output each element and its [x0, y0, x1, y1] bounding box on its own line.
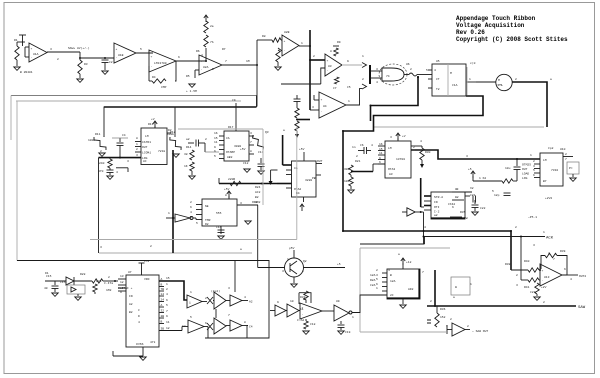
svg-text:LM: LM	[388, 147, 392, 150]
svg-text:(4x2): (4x2)	[211, 289, 220, 293]
svg-text:2: 2	[515, 78, 517, 81]
svg-text:1 K2: 1 K2	[479, 177, 486, 180]
svg-text:220R: 220R	[228, 178, 235, 181]
svg-text:3: 3	[136, 154, 138, 157]
svg-text:470: 470	[98, 170, 104, 173]
svg-text:OUT: OUT	[317, 160, 323, 163]
svg-text:a2: a2	[434, 214, 438, 217]
svg-text:7: 7	[553, 258, 555, 261]
svg-text:4: 4	[190, 211, 192, 214]
svg-text:7218: 7218	[158, 150, 165, 153]
svg-text:Voltage Acquisition: Voltage Acquisition	[456, 22, 525, 29]
svg-text:4: 4	[166, 293, 168, 296]
svg-text:TMR: TMR	[205, 219, 211, 222]
svg-text:+: +	[542, 269, 544, 272]
svg-text:3: 3	[376, 274, 378, 277]
svg-text:11: 11	[379, 152, 383, 155]
svg-text:+ 1.5M: + 1.5M	[186, 90, 197, 93]
svg-text:+5V: +5V	[144, 260, 150, 263]
svg-text:C4: C4	[249, 326, 253, 329]
svg-text:2: 2	[166, 288, 168, 291]
svg-text:4: 4	[138, 321, 140, 324]
svg-text:+2V: +2V	[541, 286, 547, 289]
svg-text:Q2: Q2	[303, 260, 307, 263]
svg-text:B2: B2	[129, 311, 133, 314]
svg-text:AD2: AD2	[408, 288, 414, 291]
svg-text:3: 3	[516, 284, 518, 287]
svg-text:LM: LM	[145, 135, 149, 138]
svg-text:5: 5	[376, 278, 378, 281]
svg-text:U5: U5	[436, 60, 440, 63]
svg-text:A2: A2	[249, 301, 253, 304]
svg-text:38: 38	[184, 153, 188, 156]
svg-text:C2: C2	[182, 325, 186, 328]
svg-text:6: 6	[533, 174, 535, 177]
svg-text:R11: R11	[95, 133, 101, 136]
svg-text:+: +	[201, 60, 203, 63]
svg-text:2: 2	[108, 276, 110, 279]
svg-text:LOAD: LOAD	[522, 172, 529, 175]
svg-text:C15: C15	[60, 281, 66, 284]
svg-text:13: 13	[120, 275, 124, 278]
svg-text:2C: 2C	[390, 294, 394, 297]
svg-text:1M2: 1M2	[106, 289, 112, 292]
svg-text:2: 2	[430, 300, 432, 303]
svg-text:R4: R4	[152, 76, 156, 79]
svg-text:C9: C9	[232, 99, 236, 102]
svg-text:1: 1	[469, 78, 471, 81]
svg-text:4: 4	[116, 171, 118, 174]
svg-text:R29: R29	[96, 280, 102, 283]
svg-text:+5V: +5V	[240, 148, 246, 151]
svg-text:2: 2	[205, 138, 207, 141]
svg-text:1: 1	[352, 316, 354, 319]
svg-text:10: 10	[120, 287, 124, 290]
svg-text:47k: 47k	[150, 340, 156, 344]
svg-text:IN: IN	[129, 295, 133, 298]
svg-text:-: -	[116, 57, 118, 60]
svg-text:~ SAW OUT: ~ SAW OUT	[472, 330, 488, 333]
svg-text:U1A: U1A	[33, 53, 39, 56]
svg-text:B2: B2	[255, 196, 259, 199]
svg-text:SAW+ AV(+/-): SAW+ AV(+/-)	[68, 46, 90, 50]
svg-text:R36: R36	[440, 308, 446, 311]
svg-text:100: 100	[344, 180, 350, 183]
svg-text:C-A2: C-A2	[297, 319, 304, 322]
svg-text:OTM25: OTM25	[522, 163, 531, 166]
svg-text:2: 2	[362, 78, 364, 81]
svg-text:13700: 13700	[396, 158, 405, 161]
svg-text:M: M	[498, 79, 500, 82]
svg-text:OTI: OTI	[434, 206, 440, 209]
svg-text:R2A: R2A	[370, 279, 376, 282]
svg-text:AB2: AB2	[227, 156, 233, 159]
svg-text:U9: U9	[336, 300, 340, 303]
svg-text:1: 1	[348, 100, 350, 103]
svg-text:a: a	[453, 296, 455, 299]
svg-text:11: 11	[166, 321, 170, 324]
svg-text:3: 3	[390, 136, 392, 139]
svg-text:C12: C12	[243, 162, 249, 165]
svg-text:4: 4	[376, 81, 378, 84]
svg-text:C21: C21	[470, 194, 476, 197]
svg-text:9: 9	[347, 60, 349, 63]
svg-text:C19: C19	[345, 331, 351, 334]
svg-text:5: 5	[533, 169, 535, 172]
svg-text:-: -	[542, 279, 544, 282]
svg-text:2: 2	[467, 325, 469, 328]
svg-text:LOG: LOG	[522, 177, 528, 180]
svg-text:4: 4	[424, 226, 426, 229]
svg-text:1: 1	[470, 283, 472, 286]
svg-text:1: 1	[301, 42, 303, 45]
svg-text:STR-A: STR-A	[434, 196, 443, 199]
svg-text:+: +	[327, 59, 329, 62]
svg-text:2: 2	[410, 68, 412, 71]
svg-text:U1B: U1B	[118, 54, 124, 57]
svg-text:-: -	[151, 65, 153, 68]
svg-text:3: 3	[100, 246, 102, 249]
svg-text:3: 3	[466, 155, 468, 158]
svg-text:D1: D1	[45, 272, 49, 275]
svg-text:9: 9	[120, 291, 122, 294]
svg-text:W: W	[455, 286, 457, 289]
svg-text:R9: R9	[337, 41, 341, 44]
svg-text:B 2N401: B 2N401	[20, 71, 33, 74]
svg-text:+12: +12	[406, 261, 412, 264]
svg-text:4: 4	[388, 269, 390, 272]
svg-text:-: -	[201, 69, 203, 72]
svg-text:1: 1	[190, 291, 192, 294]
svg-text:~P5.1: ~P5.1	[528, 216, 537, 219]
svg-text:-: -	[327, 69, 329, 72]
svg-text:1: 1	[362, 55, 364, 58]
svg-text:4: 4	[420, 140, 422, 143]
svg-text:+5V: +5V	[299, 148, 305, 151]
svg-text:R40: R40	[524, 260, 530, 263]
svg-text:U2B: U2B	[284, 31, 290, 34]
svg-text:2: 2	[515, 226, 517, 229]
svg-text:-: -	[31, 56, 33, 59]
svg-text:C7: C7	[333, 87, 337, 90]
svg-text:8: 8	[225, 194, 227, 197]
svg-text:R28: R28	[80, 273, 86, 276]
svg-text:12A: 12A	[390, 280, 396, 283]
svg-text:2: 2	[533, 160, 535, 163]
svg-text:-: -	[321, 110, 323, 113]
svg-text:C14: C14	[216, 226, 222, 229]
svg-text:2: 2	[136, 148, 138, 151]
svg-text:-: -	[284, 49, 286, 52]
svg-text:M: M	[450, 72, 452, 75]
svg-text:Rev 0.26: Rev 0.26	[456, 29, 485, 36]
svg-text:C15: C15	[46, 275, 52, 278]
svg-text:3: 3	[533, 165, 535, 168]
svg-text:3: 3	[446, 325, 448, 328]
svg-text:Appendage Touch Ribbon: Appendage Touch Ribbon	[456, 15, 536, 22]
svg-text:8: 8	[456, 188, 458, 191]
svg-text:D: D	[138, 315, 140, 318]
svg-text:OP2: OP2	[252, 201, 258, 204]
svg-text:R6: R6	[196, 50, 200, 53]
svg-text:+: +	[321, 98, 323, 101]
svg-text:2: 2	[57, 58, 59, 61]
svg-text:CT: CT	[436, 78, 440, 81]
svg-text:15: 15	[379, 148, 383, 151]
svg-text:1: 1	[168, 212, 170, 215]
svg-text:C: C	[138, 309, 140, 312]
svg-text:4: 4	[244, 296, 246, 299]
svg-text:6: 6	[166, 299, 168, 302]
svg-text:R35: R35	[460, 211, 466, 214]
svg-text:6: 6	[379, 161, 381, 164]
svg-text:5: 5	[140, 48, 142, 51]
svg-text:R41: R41	[524, 286, 530, 289]
svg-text:5: 5	[212, 68, 214, 71]
svg-text:Copyright (C) 2008 Scott Stit: Copyright (C) 2008 Scott Stites	[456, 36, 568, 43]
svg-text:152: 152	[440, 316, 446, 319]
svg-text:2: 2	[302, 270, 304, 273]
svg-text:AC2: AC2	[255, 191, 261, 194]
svg-text:C6: C6	[360, 144, 364, 147]
svg-text:16: 16	[379, 143, 383, 146]
svg-text:12: 12	[120, 281, 124, 284]
svg-text:a2: a2	[186, 138, 190, 141]
svg-text:7: 7	[422, 271, 424, 274]
svg-text:C1A: C1A	[452, 84, 458, 87]
svg-text:2B: 2B	[161, 315, 165, 318]
svg-text:R39: R39	[560, 250, 566, 253]
svg-text:+: +	[284, 40, 286, 43]
svg-text:-: -	[302, 314, 304, 317]
svg-text:16: 16	[214, 132, 218, 135]
svg-text:3: 3	[533, 244, 535, 247]
svg-text:R12: R12	[170, 131, 176, 134]
svg-text:C18: C18	[310, 323, 316, 326]
svg-text:1: 1	[543, 231, 545, 234]
svg-text:3: 3	[282, 270, 284, 273]
svg-text:+5V: +5V	[224, 188, 230, 191]
svg-text:R1: R1	[14, 39, 18, 42]
svg-text:+: +	[116, 48, 118, 51]
svg-text:+: +	[31, 48, 33, 51]
svg-text:B: B	[161, 284, 163, 287]
svg-text:R14: R14	[186, 146, 192, 149]
svg-text:3: 3	[250, 132, 252, 135]
svg-text:c|0: c|0	[470, 61, 476, 65]
svg-text:U6: U6	[406, 63, 410, 66]
svg-text:Q3: Q3	[265, 131, 269, 134]
svg-text:2: 2	[516, 274, 518, 277]
svg-text:IN: IN	[434, 201, 438, 204]
svg-text:6: 6	[214, 150, 216, 153]
svg-text:B: B	[390, 274, 392, 277]
svg-text:7332: 7332	[551, 169, 558, 172]
svg-text:1: 1	[287, 258, 289, 261]
svg-text:1: 1	[136, 143, 138, 146]
svg-text:1: 1	[376, 287, 378, 290]
svg-text:5: 5	[426, 69, 428, 72]
svg-text:R13: R13	[148, 123, 154, 126]
svg-text:U2A: U2A	[203, 66, 209, 69]
svg-text:OTA2: OTA2	[294, 188, 301, 191]
svg-text:A3: A3	[389, 173, 393, 176]
svg-text:+V: +V	[402, 135, 406, 138]
svg-text:a: a	[550, 78, 552, 81]
svg-text:7: 7	[228, 314, 230, 317]
svg-text:NE: NE	[205, 205, 209, 208]
svg-text:10u: 10u	[505, 167, 511, 170]
svg-text:+2V2: +2V2	[545, 197, 552, 200]
svg-text:4: 4	[201, 54, 203, 57]
svg-text:LM13700: LM13700	[154, 62, 167, 65]
svg-text:a: a	[240, 248, 242, 251]
svg-text:R5: R5	[186, 75, 190, 78]
svg-text:CPML: CPML	[496, 84, 503, 87]
svg-text:3: 3	[127, 160, 129, 163]
svg-text:U13: U13	[544, 276, 550, 279]
svg-text:2a: 2a	[210, 25, 214, 28]
svg-text:1: 1	[166, 283, 168, 286]
svg-text:a: a	[398, 253, 400, 256]
svg-text:LM: LM	[543, 159, 547, 162]
svg-text:OUT: OUT	[142, 146, 148, 149]
svg-text:2: 2	[356, 155, 358, 158]
svg-text:100k: 100k	[88, 138, 95, 142]
svg-text:C23: C23	[530, 291, 536, 294]
svg-text:U3: U3	[328, 65, 332, 68]
svg-text:#: #	[136, 343, 138, 346]
svg-text:300: 300	[344, 168, 350, 171]
svg-text:A2: A2	[129, 303, 133, 306]
svg-text:7: 7	[166, 310, 168, 313]
svg-text:TB: TB	[161, 288, 165, 291]
svg-text:+: +	[151, 55, 153, 58]
svg-text:R33: R33	[300, 296, 306, 299]
svg-text:+5: +5	[337, 263, 341, 266]
svg-text:555: 555	[216, 212, 222, 215]
svg-text:5: 5	[166, 304, 168, 307]
svg-text:1: 1	[530, 154, 532, 157]
svg-text:a: a	[283, 129, 285, 132]
svg-text:9: 9	[166, 315, 168, 318]
svg-text:12A: 12A	[370, 274, 376, 277]
svg-text:6: 6	[190, 206, 192, 209]
svg-text:R24: R24	[255, 186, 261, 189]
svg-text:B7: B7	[543, 180, 547, 183]
svg-text:R30: R30	[425, 151, 431, 154]
svg-text:10: 10	[290, 300, 294, 303]
svg-text:3: 3	[228, 287, 230, 290]
svg-text:C.47m: C.47m	[104, 282, 113, 285]
svg-text:1K: 1K	[184, 165, 188, 168]
svg-text:2: 2	[543, 301, 545, 304]
svg-text:6: 6	[205, 322, 207, 325]
svg-text:5: 5	[196, 222, 198, 225]
svg-text:2: 2	[190, 201, 192, 204]
svg-text:A: A	[161, 304, 163, 307]
svg-text:4: 4	[371, 144, 373, 147]
svg-text:6: 6	[178, 56, 180, 59]
svg-text:8: 8	[250, 150, 252, 153]
svg-text:9: 9	[214, 146, 216, 149]
svg-text:8: 8	[244, 321, 246, 324]
svg-text:7: 7	[565, 158, 567, 161]
svg-text:12p: 12p	[494, 194, 500, 197]
svg-text:CMP: CMP	[161, 86, 167, 89]
svg-text:3: 3	[240, 202, 242, 205]
svg-text:2: 2	[450, 318, 452, 321]
svg-text:6: 6	[376, 283, 378, 286]
svg-text:5: 5	[492, 190, 494, 193]
svg-text:1M: 1M	[246, 60, 250, 63]
svg-text:T2: T2	[436, 88, 440, 91]
svg-text:7: 7	[250, 141, 252, 144]
svg-text:5: 5	[214, 155, 216, 158]
svg-text:2: 2	[548, 252, 550, 255]
svg-text:p5V: p5V	[289, 247, 295, 250]
svg-text:W2: W2	[455, 196, 459, 199]
svg-text:VDD: VDD	[144, 278, 150, 281]
svg-text:4: 4	[570, 278, 572, 281]
svg-text:C5: C5	[347, 86, 351, 89]
svg-text:2: 2	[413, 146, 415, 149]
svg-text:9: 9	[379, 157, 381, 160]
svg-text:P=: P=	[569, 167, 573, 170]
svg-text:74: 74	[386, 75, 390, 78]
svg-text:LCOM1: LCOM1	[142, 151, 151, 154]
svg-text:11: 11	[300, 308, 304, 311]
svg-text:2: 2	[565, 153, 567, 156]
svg-text:3: 3	[312, 106, 314, 109]
svg-text:2: 2	[100, 150, 102, 153]
svg-text:24: 24	[161, 299, 165, 302]
svg-text:2: 2	[205, 297, 207, 300]
svg-text:40: 40	[44, 287, 48, 290]
svg-text:SAW: SAW	[578, 306, 586, 310]
svg-text:6: 6	[564, 268, 566, 271]
svg-text:CA: CA	[226, 137, 230, 140]
svg-text:2: 2	[376, 269, 378, 272]
svg-text:C2: C2	[109, 61, 113, 64]
svg-text:3: 3	[190, 216, 192, 219]
svg-text:Cp2: Cp2	[548, 147, 554, 150]
svg-text:U10: U10	[560, 148, 566, 151]
svg-text:4: 4	[434, 69, 436, 72]
svg-text:32: 32	[161, 310, 165, 313]
svg-text:R38: R38	[505, 263, 511, 266]
svg-text:OUT2: OUT2	[579, 275, 586, 278]
svg-text:+V: +V	[151, 118, 155, 121]
svg-text:R8: R8	[262, 35, 266, 38]
svg-text:8C: 8C	[143, 160, 147, 163]
svg-text:7b: 7b	[210, 40, 214, 44]
svg-text:7: 7	[225, 60, 227, 63]
svg-text:B: B	[161, 321, 163, 324]
svg-text:U4: U4	[323, 105, 327, 108]
svg-text:OUT: OUT	[522, 168, 528, 171]
svg-text:C22: C22	[480, 207, 486, 210]
svg-text:U7: U7	[128, 271, 132, 274]
svg-text:8: 8	[136, 137, 138, 140]
svg-text:2: 2	[313, 55, 315, 58]
svg-text:R7: R7	[222, 48, 226, 51]
svg-text:2: 2	[150, 245, 152, 248]
svg-text:9: 9	[277, 301, 279, 304]
svg-text:CATR1: CATR1	[142, 141, 151, 144]
svg-text:+5: +5	[468, 168, 472, 171]
svg-text:5: 5	[190, 316, 192, 319]
